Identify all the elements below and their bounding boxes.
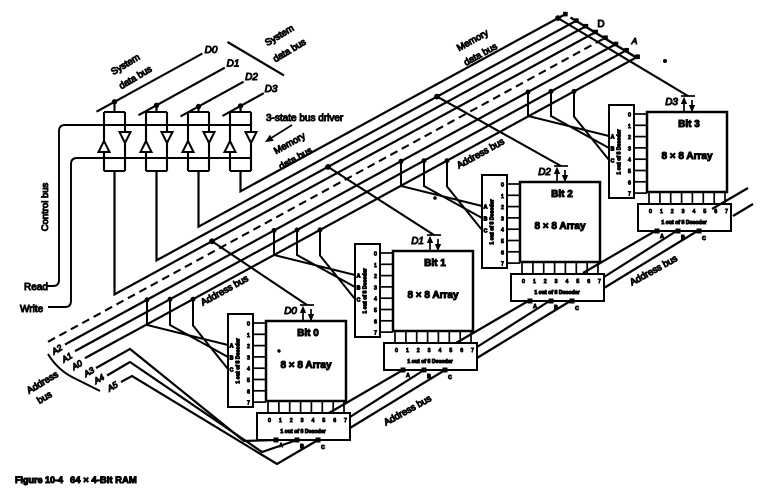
svg-text:1 out of 8 Decoder: 1 out of 8 Decoder bbox=[280, 429, 325, 435]
svg-text:5: 5 bbox=[576, 279, 579, 285]
svg-text:B: B bbox=[427, 374, 431, 380]
wire data tap D1 from memory bus bbox=[328, 167, 434, 235]
svg-text:Read: Read bbox=[24, 282, 48, 293]
3-state bus driver pair 3 (D3) bbox=[230, 112, 251, 171]
wire memory data bus line MD0 (driver output to bus) bbox=[115, 32, 596, 294]
svg-text:B: B bbox=[484, 217, 488, 223]
svg-text:D2: D2 bbox=[538, 167, 551, 178]
wires row decoder outputs to array Bit 1 bbox=[380, 253, 393, 332]
wire address bus segment A5 unit1 to unit2 bbox=[477, 300, 572, 358]
svg-text:D2: D2 bbox=[245, 72, 258, 83]
svg-text:A: A bbox=[611, 135, 615, 141]
svg-text:Write: Write bbox=[20, 304, 44, 315]
svg-text:3: 3 bbox=[555, 279, 558, 285]
svg-text:4: 4 bbox=[247, 367, 250, 373]
svg-text:1: 1 bbox=[628, 124, 631, 130]
8x8 array Bit 0 bbox=[266, 321, 346, 401]
svg-text:3: 3 bbox=[374, 285, 377, 291]
svg-text:1 out of 8 Decoder: 1 out of 8 Decoder bbox=[236, 338, 242, 383]
svg-text:A: A bbox=[279, 443, 283, 449]
svg-text:B: B bbox=[300, 444, 304, 450]
wire address bus line A4 bbox=[107, 362, 297, 452]
svg-text:3-state bus driver: 3-state bus driver bbox=[266, 113, 344, 124]
svg-text:4: 4 bbox=[565, 279, 568, 285]
svg-text:3: 3 bbox=[247, 355, 250, 361]
svg-text:1: 1 bbox=[406, 348, 409, 354]
svg-text:6: 6 bbox=[460, 348, 463, 354]
svg-text:A: A bbox=[406, 373, 410, 379]
svg-text:1: 1 bbox=[501, 194, 504, 200]
wire address bus continuation stroke 2 beyond Bit 3 bbox=[733, 204, 753, 216]
svg-text:0: 0 bbox=[501, 183, 504, 189]
svg-text:1 out of 8 Decoder: 1 out of 8 Decoder bbox=[363, 268, 369, 313]
wire address bus segment A3 unit0 to unit1 bbox=[329, 370, 403, 413]
svg-text:D0: D0 bbox=[284, 306, 297, 317]
speck bbox=[278, 350, 280, 352]
svg-text:C: C bbox=[321, 445, 325, 451]
svg-text:7: 7 bbox=[471, 348, 474, 354]
wires row decoder outputs to array Bit 2 bbox=[507, 184, 520, 263]
svg-text:1: 1 bbox=[279, 418, 282, 424]
3-state bus driver pair 2 (D2) bbox=[188, 112, 209, 171]
row decoder address taps Bit 0 bbox=[147, 300, 228, 345]
bidirectional data port symbol D1 bbox=[427, 235, 441, 250]
svg-text:0: 0 bbox=[374, 252, 377, 258]
wire address bus continuation stroke 1 beyond Bit 3 bbox=[712, 188, 748, 209]
svg-text:2: 2 bbox=[544, 279, 547, 285]
column decoder (1 out of 8) for Bit 0 bbox=[257, 413, 350, 440]
wire address bus line A3 bbox=[96, 349, 276, 441]
wire Read enable line bbox=[47, 125, 251, 286]
svg-text:6: 6 bbox=[628, 180, 631, 186]
wire driver input stub D2 bbox=[197, 107, 199, 113]
bus brace stroke system data bus bbox=[228, 42, 285, 75]
svg-text:D1: D1 bbox=[227, 59, 240, 70]
svg-text:B: B bbox=[681, 235, 685, 241]
svg-text:C: C bbox=[702, 236, 706, 242]
junction dot D1 bbox=[326, 165, 331, 170]
wire system data bus line D2 bbox=[181, 82, 244, 117]
svg-text:Bit 3: Bit 3 bbox=[678, 119, 700, 130]
svg-text:5: 5 bbox=[628, 169, 631, 175]
row decoder (1 out of 8) for Bit 1 bbox=[355, 244, 380, 337]
svg-text:7: 7 bbox=[247, 401, 250, 407]
svg-text:1: 1 bbox=[660, 209, 663, 215]
wire system data bus line D3 bbox=[223, 93, 264, 116]
bidirectional data port symbol D2 bbox=[554, 166, 568, 181]
wires array to column decoder Bit 0 bbox=[268, 401, 344, 413]
bidirectional data port symbol D0 bbox=[300, 305, 314, 320]
bidirectional data port symbol D3 bbox=[681, 96, 695, 111]
wire driver input stub D1 bbox=[155, 105, 157, 112]
wire address bus segment A5 unit2 to unit3 bbox=[604, 230, 699, 288]
junction dot D0 bbox=[210, 239, 215, 244]
wire data tap D2 from memory bus bbox=[437, 97, 561, 166]
junction dot D3 bbox=[556, 16, 561, 21]
svg-text:1: 1 bbox=[533, 279, 536, 285]
svg-text:6: 6 bbox=[587, 279, 590, 285]
svg-text:0: 0 bbox=[247, 322, 250, 328]
svg-text:4: 4 bbox=[628, 158, 631, 164]
wires array to column decoder Bit 1 bbox=[395, 331, 471, 343]
svg-text:1: 1 bbox=[247, 333, 250, 339]
wires array to column decoder Bit 2 bbox=[522, 262, 598, 274]
svg-text:1 out of 8 Decoder: 1 out of 8 Decoder bbox=[407, 359, 452, 365]
svg-text:C: C bbox=[575, 306, 579, 312]
row decoder address taps Bit 1 bbox=[274, 231, 355, 276]
svg-text:A: A bbox=[357, 274, 361, 280]
wires row decoder outputs to array Bit 0 bbox=[253, 323, 266, 402]
svg-text:0: 0 bbox=[268, 418, 271, 424]
svg-text:64 × 4-Bit RAM: 64 × 4-Bit RAM bbox=[70, 475, 137, 486]
svg-text:7: 7 bbox=[501, 262, 504, 268]
svg-text:7: 7 bbox=[598, 279, 601, 285]
wire memory data bus line MD1 (driver output to bus) bbox=[157, 26, 586, 260]
wire system data bus line D1 bbox=[139, 68, 225, 116]
svg-text:5: 5 bbox=[501, 239, 504, 245]
column decoder address input pin blobs Bit 1 bbox=[401, 368, 447, 372]
svg-text:7: 7 bbox=[374, 331, 377, 337]
svg-text:D3: D3 bbox=[265, 84, 278, 95]
junction blobs at bus line ends bbox=[564, 12, 640, 58]
speck bbox=[434, 197, 437, 200]
svg-text:C: C bbox=[357, 298, 361, 304]
svg-text:4: 4 bbox=[692, 209, 695, 215]
svg-text:3: 3 bbox=[628, 146, 631, 152]
svg-text:A: A bbox=[484, 205, 488, 211]
wire address bus line A0 bbox=[85, 57, 638, 358]
svg-text:B: B bbox=[230, 356, 234, 362]
svg-text:5: 5 bbox=[374, 308, 377, 314]
svg-text:7: 7 bbox=[725, 209, 728, 215]
column decoder (1 out of 8) for Bit 3 bbox=[638, 204, 731, 231]
svg-text:3: 3 bbox=[682, 209, 685, 215]
row decoder address taps Bit 3 bbox=[528, 92, 609, 136]
wire address bus line A2 bbox=[65, 44, 616, 345]
svg-text:2: 2 bbox=[374, 274, 377, 280]
column decoder (1 out of 8) for Bit 1 bbox=[384, 343, 477, 370]
svg-text:2: 2 bbox=[501, 205, 504, 211]
wire driver input stub D3 bbox=[239, 106, 241, 112]
svg-text:2: 2 bbox=[671, 209, 674, 215]
svg-text:Address bus: Address bus bbox=[382, 393, 434, 428]
svg-text:1 out of 8 Decoder: 1 out of 8 Decoder bbox=[617, 129, 623, 174]
svg-text:5: 5 bbox=[322, 418, 325, 424]
svg-text:D0: D0 bbox=[205, 45, 218, 56]
svg-text:3: 3 bbox=[501, 216, 504, 222]
wire address bus segment A4 unit2 to unit3 bbox=[604, 230, 678, 277]
svg-text:1: 1 bbox=[374, 263, 377, 269]
svg-text:3: 3 bbox=[301, 418, 304, 424]
svg-text:4: 4 bbox=[311, 418, 314, 424]
svg-text:8 × 8 Array: 8 × 8 Array bbox=[534, 221, 585, 232]
column decoder address input pin blobs Bit 2 bbox=[528, 299, 574, 303]
svg-text:4: 4 bbox=[374, 297, 377, 303]
svg-text:Bit 1: Bit 1 bbox=[424, 258, 446, 269]
wire system data bus line D0 bbox=[97, 54, 203, 112]
svg-text:C: C bbox=[230, 368, 234, 374]
wire address bus segment A5 unit0 to unit1 bbox=[350, 370, 445, 428]
svg-text:2: 2 bbox=[247, 344, 250, 350]
svg-text:4: 4 bbox=[438, 348, 441, 354]
8x8 array Bit 1 bbox=[393, 251, 473, 331]
svg-text:A: A bbox=[631, 36, 638, 46]
svg-text:A: A bbox=[533, 304, 537, 310]
svg-text:A: A bbox=[230, 344, 234, 350]
svg-text:D: D bbox=[597, 19, 604, 30]
wire Write enable line bbox=[48, 158, 251, 307]
8x8 array Bit 2 bbox=[520, 182, 600, 262]
svg-text:2: 2 bbox=[417, 348, 420, 354]
arrow to bus driver bbox=[268, 125, 292, 140]
svg-text:C: C bbox=[448, 375, 452, 381]
svg-text:5: 5 bbox=[703, 209, 706, 215]
address bus brace bbox=[48, 354, 100, 391]
wire memory data bus line MD2 (driver output to bus) bbox=[199, 21, 577, 227]
svg-text:Bit 2: Bit 2 bbox=[551, 189, 573, 200]
wire address bus line A1 bbox=[75, 50, 627, 351]
wire address bus segment A4 unit1 to unit2 bbox=[477, 300, 551, 347]
3-state bus driver pair 1 (D1) bbox=[146, 112, 167, 171]
svg-text:6: 6 bbox=[247, 389, 250, 395]
svg-text:5: 5 bbox=[247, 378, 250, 384]
svg-text:1 out of 8 Decoder: 1 out of 8 Decoder bbox=[661, 220, 706, 226]
svg-text:A: A bbox=[660, 234, 664, 240]
svg-text:8 × 8 Array: 8 × 8 Array bbox=[661, 151, 712, 162]
row decoder (1 out of 8) for Bit 3 bbox=[609, 105, 634, 198]
svg-text:B: B bbox=[357, 286, 361, 292]
svg-text:0: 0 bbox=[628, 113, 631, 119]
svg-text:0: 0 bbox=[522, 279, 525, 285]
svg-text:Bit 0: Bit 0 bbox=[297, 328, 319, 339]
row decoder address taps Bit 2 bbox=[401, 161, 482, 206]
svg-text:B: B bbox=[554, 305, 558, 311]
wire address bus segment A3 unit1 to unit2 bbox=[456, 300, 530, 343]
svg-text:7: 7 bbox=[628, 192, 631, 198]
svg-text:0: 0 bbox=[395, 348, 398, 354]
column decoder address input pin blobs Bit 0 bbox=[274, 438, 320, 442]
bus termination tick bbox=[571, 18, 639, 59]
8x8 array Bit 3 bbox=[647, 112, 727, 192]
svg-text:D1: D1 bbox=[411, 236, 424, 247]
column decoder address input pin blobs Bit 3 bbox=[655, 229, 701, 233]
svg-text:2: 2 bbox=[290, 418, 293, 424]
wire address bus segment A3 unit2 to unit3 bbox=[583, 230, 657, 273]
svg-text:Figure 10-4: Figure 10-4 bbox=[15, 475, 63, 485]
wire dashed bus line bbox=[48, 38, 606, 342]
speck bbox=[664, 60, 667, 63]
row decoder (1 out of 8) for Bit 0 bbox=[228, 314, 253, 407]
svg-text:B: B bbox=[611, 147, 615, 153]
column decoder (1 out of 8) for Bit 2 bbox=[511, 274, 604, 301]
row decoder (1 out of 8) for Bit 2 bbox=[482, 175, 507, 268]
svg-text:6: 6 bbox=[501, 250, 504, 256]
wire memory data bus line MD3 (driver output to bus) bbox=[241, 14, 566, 191]
svg-text:1 out of 8 Decoder: 1 out of 8 Decoder bbox=[534, 290, 579, 296]
wires row decoder outputs to array Bit 3 bbox=[634, 114, 647, 193]
wire driver input stub D0 bbox=[113, 102, 115, 112]
svg-text:4: 4 bbox=[501, 228, 504, 234]
wire data tap D0 from memory bus bbox=[212, 241, 307, 305]
junction dot D2 bbox=[435, 94, 440, 99]
svg-text:2: 2 bbox=[628, 135, 631, 141]
svg-text:8 × 8 Array: 8 × 8 Array bbox=[407, 290, 458, 301]
wire address bus line A5 bbox=[121, 376, 318, 464]
svg-text:3: 3 bbox=[428, 348, 431, 354]
svg-text:8 × 8 Array: 8 × 8 Array bbox=[280, 360, 331, 371]
svg-text:7: 7 bbox=[344, 418, 347, 424]
svg-text:Control bus: Control bus bbox=[40, 182, 51, 231]
svg-text:6: 6 bbox=[333, 418, 336, 424]
svg-text:C: C bbox=[484, 229, 488, 235]
wire data tap D3 from memory bus bbox=[558, 18, 688, 96]
svg-text:6: 6 bbox=[374, 319, 377, 325]
svg-text:0: 0 bbox=[649, 209, 652, 215]
svg-text:6: 6 bbox=[714, 209, 717, 215]
wires array to column decoder Bit 3 bbox=[649, 192, 725, 204]
svg-text:C: C bbox=[611, 159, 615, 165]
wire address bus segment A4 unit0 to unit1 bbox=[350, 370, 424, 417]
svg-text:D3: D3 bbox=[665, 97, 678, 108]
svg-text:5: 5 bbox=[449, 348, 452, 354]
3-state bus driver pair 0 (D0) bbox=[104, 112, 125, 171]
svg-text:1 out of 8 Decoder: 1 out of 8 Decoder bbox=[490, 199, 496, 244]
svg-text:A5: A5 bbox=[105, 379, 120, 394]
